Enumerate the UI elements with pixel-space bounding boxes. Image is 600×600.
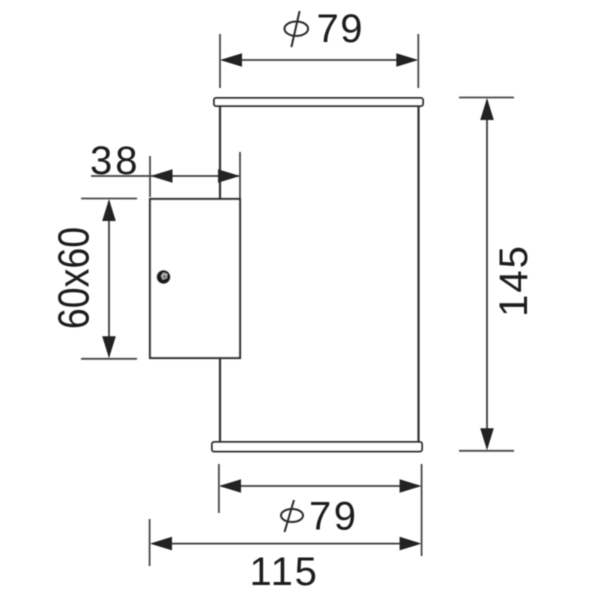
- screw head on plate: [157, 270, 171, 284]
- 38 dimension line with arrows: [91, 169, 240, 183]
- svg-text:79: 79: [317, 7, 365, 51]
- 38 dimension extension lines: [150, 152, 240, 198]
- svg-text:79: 79: [309, 495, 359, 539]
- top diameter dimension line with arrows: [220, 53, 418, 67]
- svg-text:145: 145: [492, 244, 536, 317]
- 60x60 dimension line with arrows: [102, 199, 116, 358]
- width 115 extension line left: [149, 519, 151, 566]
- svg-text:115: 115: [250, 550, 319, 594]
- height 145 dimension line with arrows: [480, 98, 494, 450]
- top phi symbol: [285, 11, 309, 47]
- lamp bottom cap: [212, 442, 422, 452]
- width 115 dimension line with arrows: [150, 537, 422, 551]
- lamp top cap: [214, 98, 423, 106]
- lamp body cylinder side outline: [220, 106, 419, 442]
- bottom phi symbol: [281, 500, 303, 532]
- mounting plate 60x60: [150, 199, 240, 358]
- bottom diameter dimension line with arrows: [219, 479, 422, 493]
- top diameter dimension extension lines: [220, 34, 418, 88]
- 60x60 extension lines: [81, 199, 137, 359]
- svg-text:60x60: 60x60: [49, 227, 98, 329]
- height 145 extension lines: [459, 98, 514, 451]
- bottom diameter extension lines: [219, 464, 422, 556]
